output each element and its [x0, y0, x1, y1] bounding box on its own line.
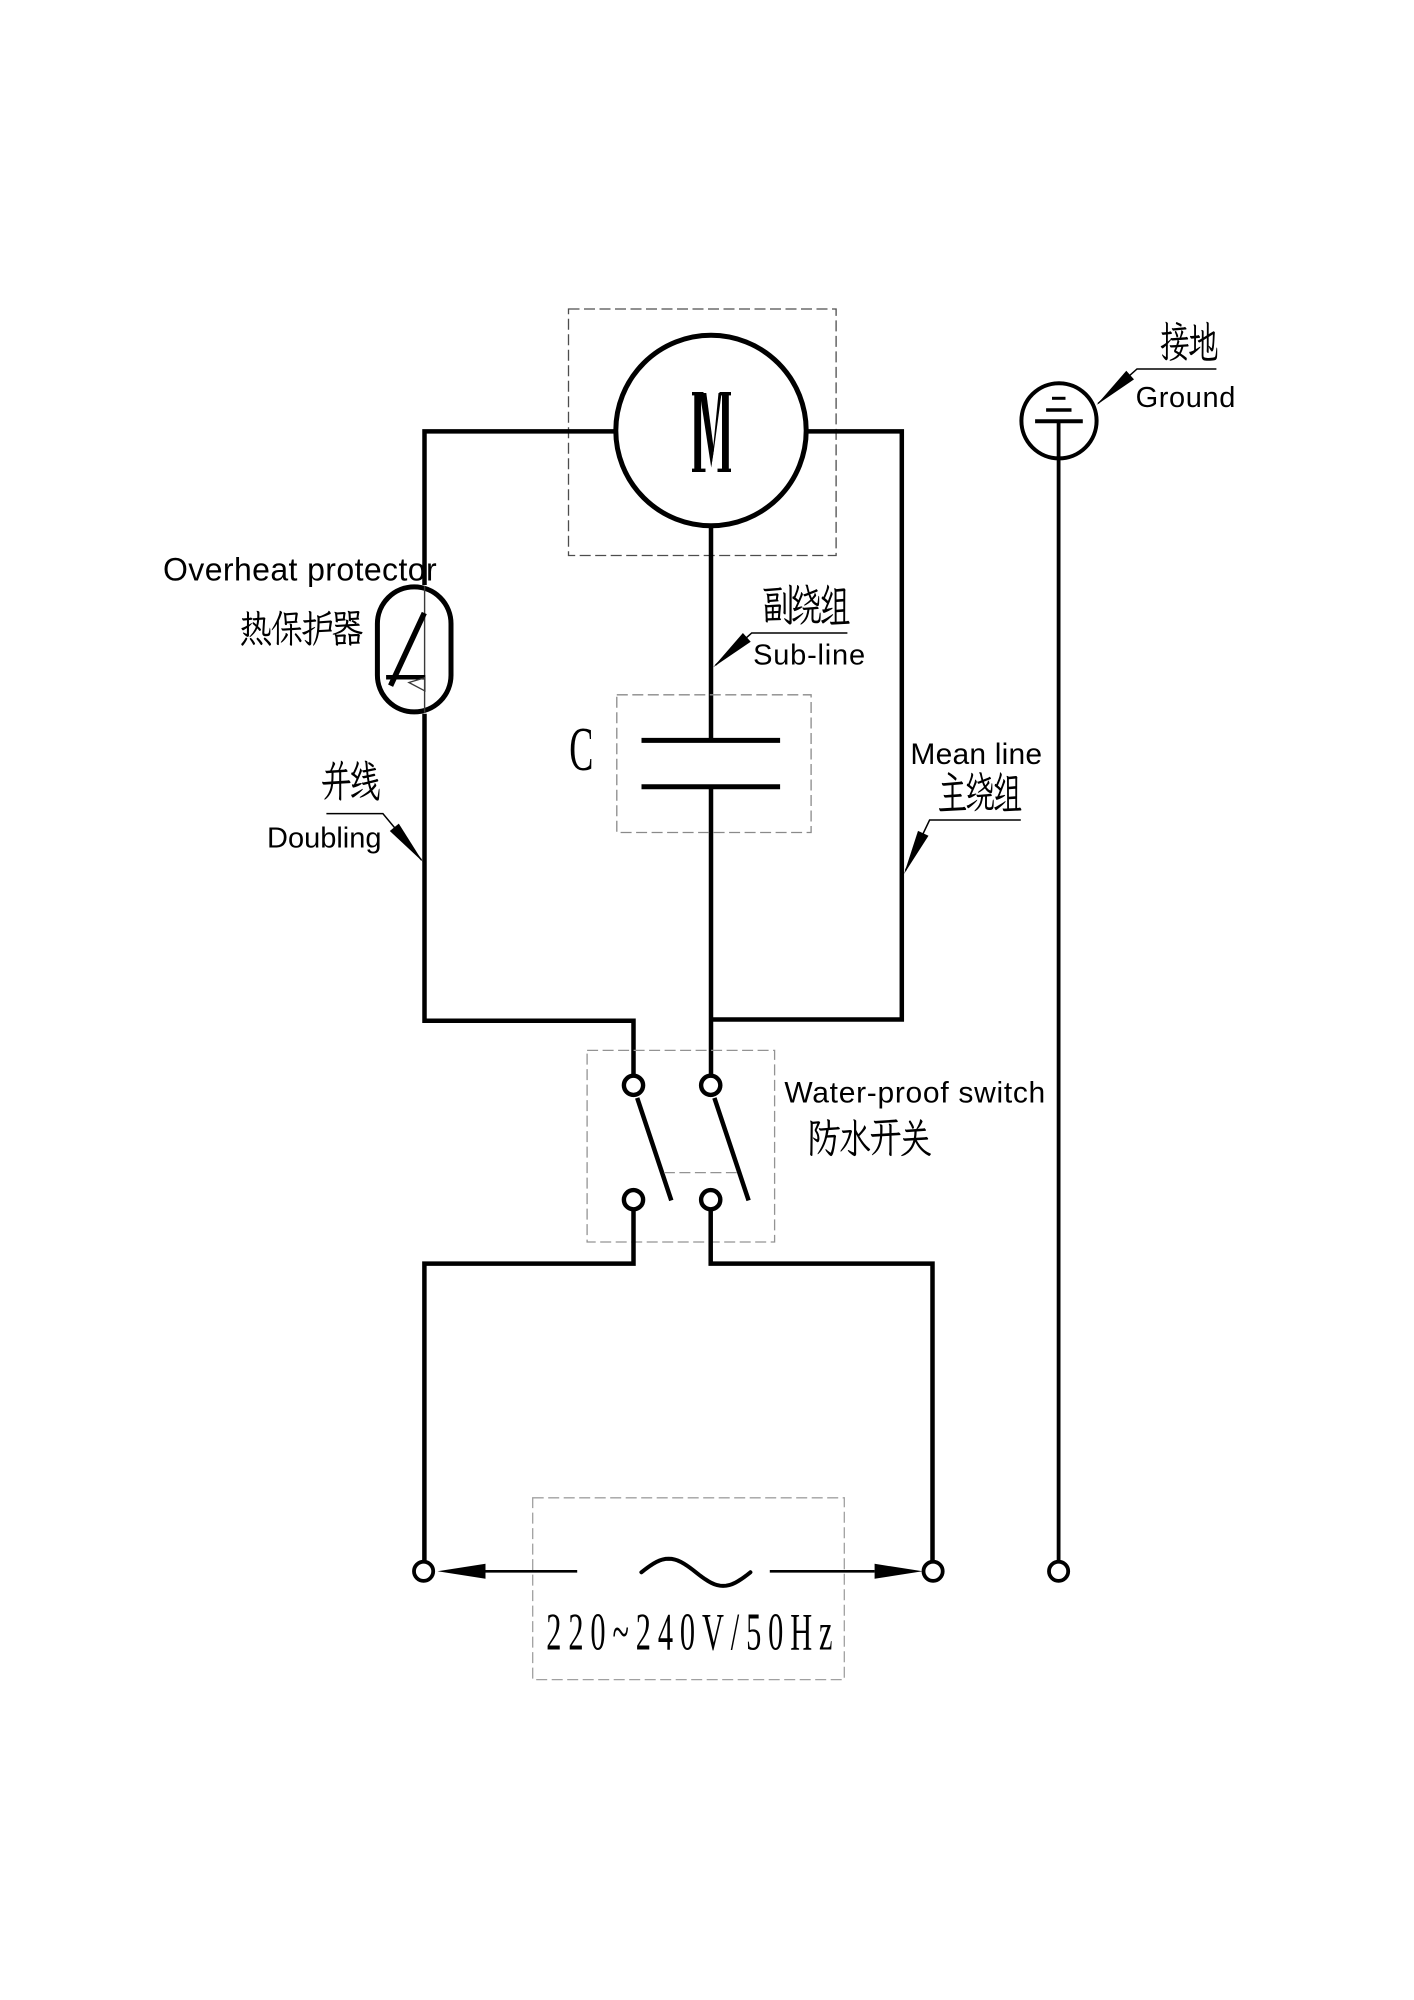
leader ground label: [1097, 369, 1217, 405]
label 防水开关 (water-proof switch): [810, 1119, 931, 1156]
svg-text:C: C: [569, 715, 593, 783]
leader doubling label: [326, 814, 423, 862]
AC source sine: [641, 1559, 750, 1586]
wire motor-left to doubling branch: [425, 431, 616, 585]
switch terminal top-right: [701, 1076, 720, 1095]
label 主绕组 (main winding): [939, 772, 1021, 811]
capacitor enclosure (dashed): [617, 695, 811, 833]
terminal L: [414, 1562, 433, 1581]
switch coupling link (dashed): [664, 1172, 737, 1174]
wire doubling branch lower to switch: [425, 714, 634, 1076]
switch terminal bottom-left: [624, 1190, 643, 1209]
overheat protector: [377, 586, 451, 713]
wire ground: [1057, 421, 1061, 1561]
terminal ground: [1049, 1562, 1068, 1581]
svg-text:Doubling: Doubling: [267, 823, 381, 855]
wire motor-right mean line: [711, 431, 902, 1019]
svg-text:Water-proof switch: Water-proof switch: [784, 1077, 1046, 1110]
svg-text:Mean line: Mean line: [910, 738, 1042, 771]
svg-text:Sub-line: Sub-line: [753, 639, 866, 671]
arrow to terminal L: [438, 1564, 578, 1579]
svg-text:Ground: Ground: [1136, 382, 1236, 414]
svg-text:220~240V/50Hz: 220~240V/50Hz: [546, 1604, 839, 1662]
water-proof switch enclosure (dashed): [587, 1050, 775, 1242]
label 副绕组 (sub winding): [763, 585, 849, 625]
label 热保护器 (overheat protector): [241, 611, 362, 646]
label 并线 (doubling): [322, 761, 379, 801]
wire switch-out right: [711, 1209, 933, 1561]
capacitor C: [642, 740, 781, 786]
wire switch-out left: [424, 1209, 633, 1561]
ground symbol: [1021, 383, 1096, 458]
leader sub-line label: [713, 633, 847, 667]
switch terminal bottom-right: [701, 1190, 720, 1209]
switch blade left: [637, 1098, 671, 1201]
wire sub-line upper: [709, 526, 714, 741]
terminal N: [924, 1562, 943, 1581]
label 接地 (ground): [1161, 322, 1218, 361]
motor enclosure (dashed): [569, 309, 837, 556]
power source enclosure (dashed): [533, 1498, 845, 1680]
arrow to terminal N: [770, 1564, 923, 1579]
switch blade right: [714, 1098, 748, 1201]
leader mean line label: [904, 820, 1021, 874]
motor M: [616, 335, 806, 525]
switch terminal top-left: [624, 1076, 643, 1095]
wire sub-line lower: [709, 787, 714, 1077]
svg-text:Overheat protector: Overheat protector: [163, 552, 437, 588]
